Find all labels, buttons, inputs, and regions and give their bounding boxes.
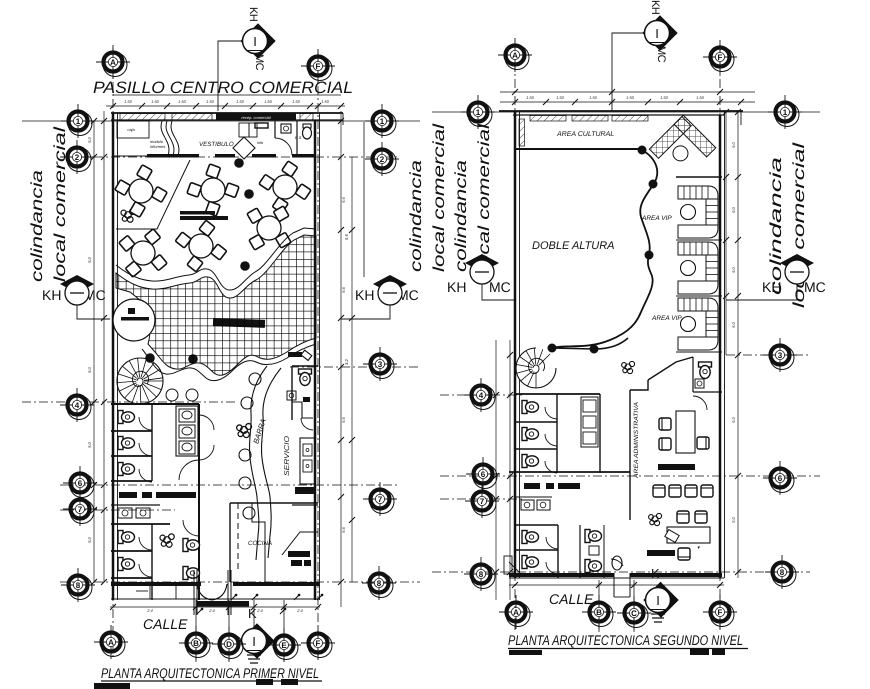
svg-text:recep. comercial: recep. comercial — [241, 115, 270, 120]
svg-text:1.50: 1.50 — [526, 95, 535, 100]
svg-text:5.6: 5.6 — [341, 286, 346, 292]
svg-text:5.6: 5.6 — [341, 196, 346, 202]
svg-text:MC: MC — [253, 54, 265, 71]
svg-text:5.0: 5.0 — [87, 136, 92, 142]
svg-text:8: 8 — [377, 579, 382, 588]
svg-text:info: info — [257, 141, 263, 145]
svg-text:3: 3 — [378, 360, 383, 369]
svg-text:5.0: 5.0 — [87, 441, 92, 447]
svg-text:colindancia: colindancia — [453, 160, 470, 272]
svg-text:5.0: 5.0 — [731, 516, 736, 522]
svg-text:I: I — [655, 26, 659, 41]
svg-text:F: F — [718, 53, 723, 62]
svg-text:local comercial: local comercial — [431, 123, 448, 272]
svg-text:CALLE: CALLE — [549, 591, 594, 607]
svg-text:1.50: 1.50 — [556, 95, 565, 100]
svg-text:A: A — [513, 608, 519, 617]
svg-text:7: 7 — [480, 497, 485, 506]
svg-text:informes: informes — [150, 144, 165, 149]
svg-text:5.6: 5.6 — [341, 416, 346, 422]
svg-text:5.0: 5.0 — [87, 536, 92, 542]
svg-text:D: D — [226, 640, 232, 649]
svg-text:6: 6 — [481, 470, 486, 479]
svg-text:A: A — [108, 638, 114, 647]
svg-text:colindancia: colindancia — [29, 170, 46, 282]
svg-text:AREA CULTURAL: AREA CULTURAL — [556, 131, 614, 138]
svg-text:1.50: 1.50 — [264, 99, 273, 104]
svg-text:B: B — [193, 639, 199, 648]
svg-text:CALLE: CALLE — [143, 616, 188, 632]
svg-text:5.0: 5.0 — [731, 321, 736, 327]
svg-text:1.50: 1.50 — [626, 95, 635, 100]
svg-text:2.4: 2.4 — [146, 608, 153, 613]
svg-text:MC: MC — [655, 46, 667, 63]
svg-text:PLANTA ARQUITECTONICA PRIMER N: PLANTA ARQUITECTONICA PRIMER NIVEL — [101, 665, 319, 681]
svg-text:1.50: 1.50 — [321, 99, 330, 104]
svg-text:8: 8 — [76, 581, 81, 590]
svg-text:5.0: 5.0 — [731, 206, 736, 212]
svg-text:6: 6 — [778, 474, 783, 483]
svg-text:5.0: 5.0 — [731, 416, 736, 422]
svg-text:AREA VIP: AREA VIP — [641, 215, 672, 222]
svg-text:7: 7 — [78, 505, 83, 514]
svg-text:3.2: 3.2 — [344, 359, 349, 365]
svg-text:colindancia: colindancia — [408, 160, 425, 272]
svg-text:4: 4 — [75, 401, 80, 410]
svg-text:AREA ADMINISTRATIVA: AREA ADMINISTRATIVA — [633, 402, 640, 479]
svg-text:5.0: 5.0 — [731, 141, 736, 147]
svg-text:7: 7 — [378, 495, 383, 504]
svg-text:A: A — [110, 58, 116, 67]
svg-text:K: K — [248, 606, 257, 621]
svg-text:I: I — [253, 34, 257, 49]
svg-text:1: 1 — [476, 108, 481, 117]
svg-text:8: 8 — [780, 568, 785, 577]
svg-text:5.6: 5.6 — [344, 234, 349, 240]
svg-text:SERVICIO: SERVICIO — [284, 435, 291, 476]
svg-text:2: 2 — [380, 155, 385, 164]
svg-text:KH: KH — [355, 287, 374, 303]
svg-text:caja: caja — [127, 127, 135, 132]
svg-text:1.50: 1.50 — [589, 95, 598, 100]
svg-text:E.S: E.S — [295, 135, 302, 140]
svg-text:KH: KH — [762, 279, 781, 295]
svg-text:2.4: 2.4 — [208, 608, 215, 613]
svg-text:B: B — [596, 608, 602, 617]
svg-text:KH: KH — [42, 287, 61, 303]
svg-text:1.50: 1.50 — [151, 99, 160, 104]
svg-text:4: 4 — [479, 391, 484, 400]
svg-text:colindancia: colindancia — [768, 157, 785, 295]
svg-text:1.50: 1.50 — [660, 95, 669, 100]
svg-text:5.0: 5.0 — [87, 256, 92, 262]
svg-text:1.50: 1.50 — [206, 99, 215, 104]
svg-text:MC: MC — [489, 279, 511, 295]
svg-text:KH: KH — [649, 0, 661, 15]
svg-text:F: F — [316, 62, 321, 71]
svg-text:6: 6 — [78, 479, 83, 488]
svg-text:AREA VIP: AREA VIP — [651, 315, 682, 322]
svg-text:DOBLE ALTURA: DOBLE ALTURA — [532, 240, 615, 252]
svg-text:PASILLO CENTRO COMERCIAL: PASILLO CENTRO COMERCIAL — [93, 79, 353, 97]
svg-text:MC: MC — [804, 279, 826, 295]
svg-text:I: I — [252, 634, 256, 649]
svg-text:1: 1 — [380, 117, 385, 126]
svg-text:5.6: 5.6 — [341, 526, 346, 532]
svg-text:8: 8 — [479, 570, 484, 579]
svg-text:C: C — [631, 609, 637, 618]
svg-text:F: F — [718, 608, 723, 617]
svg-text:E: E — [281, 641, 287, 650]
svg-text:VESTIBULO: VESTIBULO — [199, 141, 234, 148]
svg-text:1.50: 1.50 — [292, 99, 301, 104]
svg-text:2: 2 — [75, 153, 80, 162]
svg-text:KH: KH — [247, 7, 259, 22]
svg-text:local comercial: local comercial — [52, 126, 69, 282]
svg-text:A: A — [512, 51, 518, 60]
svg-text:2.4: 2.4 — [256, 608, 263, 613]
svg-text:5.0: 5.0 — [731, 266, 736, 272]
svg-text:local comercial: local comercial — [476, 123, 493, 272]
svg-text:PLANTA ARQUITECTONICA SEGUNDO: PLANTA ARQUITECTONICA SEGUNDO NIVEL — [508, 632, 743, 648]
svg-text:COCINA: COCINA — [248, 540, 272, 547]
svg-text:1.50: 1.50 — [124, 99, 133, 104]
svg-text:F: F — [316, 639, 321, 648]
svg-text:KH: KH — [447, 279, 466, 295]
svg-text:1.50: 1.50 — [696, 95, 705, 100]
svg-text:1: 1 — [783, 108, 788, 117]
svg-text:1.50: 1.50 — [236, 99, 245, 104]
svg-text:I: I — [656, 593, 660, 608]
svg-text:2.4: 2.4 — [296, 608, 303, 613]
svg-text:1: 1 — [76, 117, 81, 126]
svg-text:3: 3 — [778, 351, 783, 360]
svg-text:1.50: 1.50 — [178, 99, 187, 104]
svg-text:5.0: 5.0 — [87, 366, 92, 372]
